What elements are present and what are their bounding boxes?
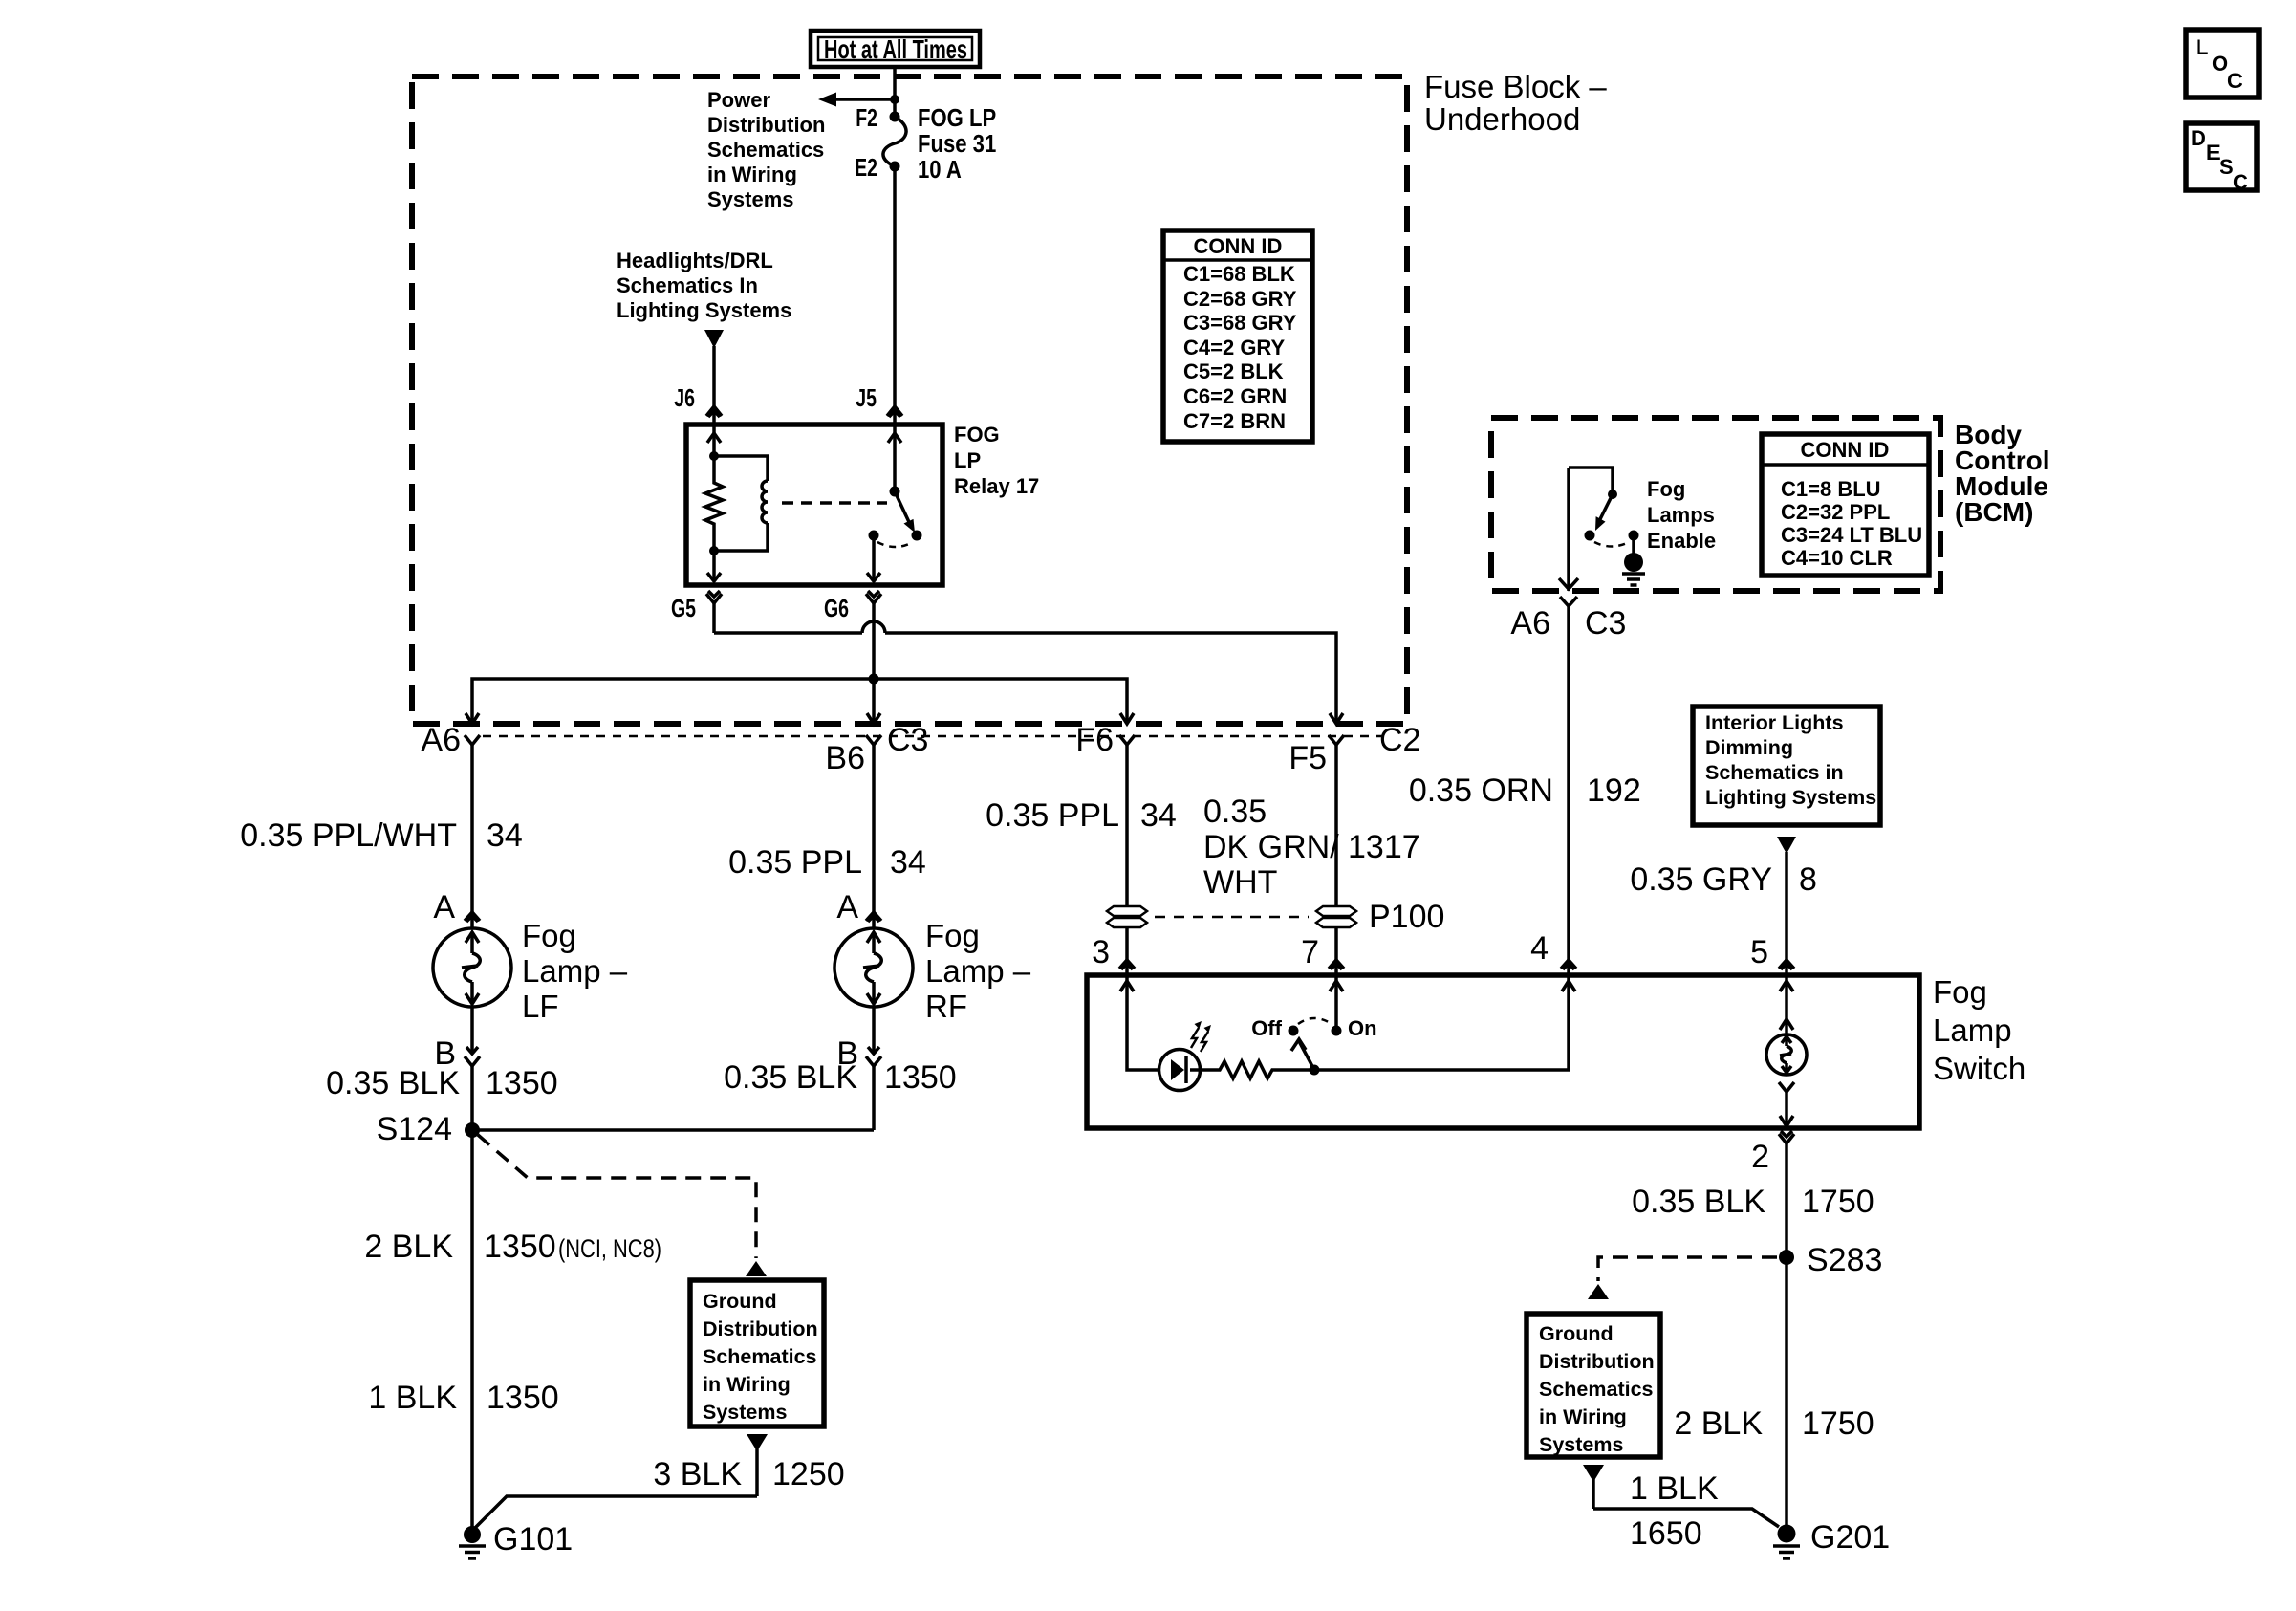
splice S283 node bbox=[1779, 1250, 1794, 1265]
svg-text:3: 3 bbox=[1092, 934, 1110, 970]
splice S124 node bbox=[465, 1122, 480, 1138]
svg-text:1650: 1650 bbox=[1630, 1515, 1702, 1552]
svg-text:in Wiring: in Wiring bbox=[707, 163, 797, 186]
svg-text:P100: P100 bbox=[1369, 899, 1444, 935]
Interior Lights Dimming reference box bbox=[1693, 707, 1880, 825]
svg-text:DK GRN/: DK GRN/ bbox=[1203, 829, 1339, 865]
svg-text:C5=2 BLK: C5=2 BLK bbox=[1183, 359, 1284, 383]
svg-text:C4=10 CLR: C4=10 CLR bbox=[1781, 546, 1893, 570]
CONN ID table (BCM) bbox=[1762, 434, 1929, 576]
switch lamp output wire bbox=[1779, 1082, 1794, 1126]
svg-text:C4=2 GRY: C4=2 GRY bbox=[1183, 336, 1286, 359]
Hot at All Times power tag bbox=[811, 31, 980, 67]
svg-text:Systems: Systems bbox=[707, 187, 794, 211]
relay coil bbox=[714, 456, 768, 551]
svg-text:Fog: Fog bbox=[1647, 477, 1685, 501]
dashed branch from S124 to ground distribution bbox=[478, 1135, 767, 1276]
relay common contact node bbox=[869, 531, 879, 541]
connector G5 bbox=[706, 591, 722, 633]
svg-text:Fog: Fog bbox=[925, 918, 980, 953]
wire G6 distribution run (to A6, B6, F6) bbox=[466, 679, 1134, 724]
svg-text:E2: E2 bbox=[855, 153, 877, 181]
connector F5/C2 (fuse block) bbox=[1329, 735, 1344, 906]
svg-text:Ground: Ground bbox=[1539, 1322, 1614, 1345]
connector A (fog lamp RF) bbox=[866, 912, 881, 929]
BCM output wire bbox=[1559, 468, 1578, 591]
svg-text:FOG LP: FOG LP bbox=[918, 104, 996, 132]
relay switch pivot node bbox=[890, 487, 900, 497]
connector B (fog lamp LF) bbox=[465, 1007, 480, 1130]
svg-text:L: L bbox=[2196, 35, 2208, 59]
svg-text:WHT: WHT bbox=[1203, 864, 1277, 901]
node F2 bbox=[890, 112, 900, 122]
fog lamp LF bbox=[433, 928, 511, 1007]
svg-text:4: 4 bbox=[1530, 930, 1549, 967]
wire from Hot at All Times into fuse block bbox=[893, 67, 897, 117]
svg-text:A: A bbox=[433, 889, 455, 925]
node junction at power branch bbox=[890, 95, 899, 104]
svg-text:Fuse Block –: Fuse Block – bbox=[1424, 69, 1607, 104]
wire branch to Power Distribution (arrow left) bbox=[818, 93, 895, 107]
inline connector P100 right half bbox=[1316, 906, 1356, 927]
svg-text:5: 5 bbox=[1750, 934, 1768, 970]
svg-text:C2=32 PPL: C2=32 PPL bbox=[1781, 500, 1890, 524]
svg-text:(NCI, NC8): (NCI, NC8) bbox=[558, 1234, 661, 1263]
svg-text:G201: G201 bbox=[1810, 1519, 1890, 1556]
switch common node bbox=[1310, 1065, 1320, 1076]
svg-text:G6: G6 bbox=[824, 594, 849, 621]
relay coil top node bbox=[709, 451, 719, 461]
fog lamp RF name bbox=[925, 918, 1031, 1024]
connector A6 (fuse block) bbox=[465, 735, 480, 912]
svg-text:LP: LP bbox=[954, 448, 981, 472]
svg-text:Underhood: Underhood bbox=[1424, 101, 1580, 137]
switch pin 4 internal wire bbox=[1314, 977, 1575, 1070]
svg-text:Schematics in: Schematics in bbox=[1705, 761, 1844, 784]
wire label 0.35 PPL 34 (RF) bbox=[728, 844, 926, 881]
svg-text:Lighting Systems: Lighting Systems bbox=[1705, 786, 1876, 809]
connector G6 bbox=[866, 591, 881, 679]
connector J6 bbox=[706, 406, 722, 456]
svg-text:0.35: 0.35 bbox=[1203, 794, 1267, 830]
connector B6/C3 (fuse block) bbox=[866, 735, 881, 912]
wire label 0.35 ORN 192 bbox=[1409, 773, 1641, 809]
Fog Lamps Enable label bbox=[1647, 477, 1716, 553]
svg-text:S: S bbox=[2220, 155, 2234, 179]
connector pin 4 (switch) bbox=[1561, 960, 1576, 975]
svg-text:C6=2 GRN: C6=2 GRN bbox=[1183, 384, 1287, 408]
P100 label bbox=[1369, 899, 1444, 935]
wire S124 to G101 bbox=[470, 1130, 474, 1531]
relay contact travel arc (dashed) bbox=[877, 542, 913, 547]
svg-text:10 A: 10 A bbox=[918, 156, 962, 184]
svg-text:Schematics: Schematics bbox=[703, 1345, 817, 1368]
connector pin 3 (switch) bbox=[1119, 960, 1135, 975]
svg-text:FOG: FOG bbox=[954, 423, 1000, 446]
svg-text:C3: C3 bbox=[1585, 605, 1626, 642]
Body Control Module dashed boundary bbox=[1491, 418, 1940, 591]
svg-text:0.35 ORN: 0.35 ORN bbox=[1409, 773, 1553, 809]
switch travel arc (dashed) bbox=[1298, 1018, 1332, 1024]
pin 7 label bbox=[1301, 934, 1319, 970]
svg-text:8: 8 bbox=[1799, 861, 1817, 898]
node splice on G6 run bbox=[869, 674, 879, 685]
svg-text:Schematics: Schematics bbox=[707, 138, 824, 162]
arrow from headlights schematics bbox=[704, 330, 724, 406]
svg-text:1750: 1750 bbox=[1802, 1184, 1874, 1220]
svg-text:F5: F5 bbox=[1289, 740, 1327, 776]
wire label 1650 bbox=[1630, 1515, 1702, 1552]
svg-text:Lamp –: Lamp – bbox=[925, 953, 1031, 989]
svg-text:Systems: Systems bbox=[1539, 1433, 1623, 1456]
svg-text:C: C bbox=[2233, 170, 2248, 194]
CONN ID table (fuse block) bbox=[1163, 230, 1312, 442]
svg-text:G5: G5 bbox=[671, 594, 696, 621]
svg-text:C2=68 GRY: C2=68 GRY bbox=[1183, 287, 1297, 311]
label F6 bbox=[1075, 722, 1114, 758]
svg-text:Off: Off bbox=[1251, 1016, 1282, 1040]
pin 4 label bbox=[1530, 930, 1549, 967]
svg-text:2: 2 bbox=[1751, 1139, 1769, 1175]
svg-text:7: 7 bbox=[1301, 934, 1319, 970]
pin A label (RF) bbox=[836, 889, 858, 925]
svg-text:Power: Power bbox=[707, 88, 770, 112]
switch On contact node bbox=[1332, 1026, 1342, 1036]
svg-text:Fuse 31: Fuse 31 bbox=[918, 130, 996, 158]
svg-text:Interior Lights: Interior Lights bbox=[1705, 711, 1844, 734]
relay output wire to G6 bbox=[867, 535, 880, 581]
wire label 2 BLK 1750 bbox=[1674, 1405, 1874, 1442]
pin 5 label bbox=[1750, 934, 1768, 970]
svg-text:0.35 BLK: 0.35 BLK bbox=[1632, 1184, 1765, 1220]
connector pin 7 (switch) bbox=[1329, 960, 1344, 975]
pin A label (LF) bbox=[433, 889, 455, 925]
svg-text:C2: C2 bbox=[1379, 722, 1420, 758]
svg-text:2 BLK: 2 BLK bbox=[364, 1229, 453, 1265]
svg-text:LF: LF bbox=[522, 989, 559, 1024]
wire label 0.35 DK GRN/WHT 1317 bbox=[1203, 794, 1420, 901]
connector A (fog lamp LF) bbox=[465, 912, 480, 929]
fog lamp LF name bbox=[522, 918, 628, 1024]
label On bbox=[1348, 1016, 1377, 1040]
wire from ground distribution to G201 bbox=[1593, 1509, 1779, 1527]
relay coil wire to G5 bbox=[707, 551, 721, 581]
relay pin J6 direction arrow bbox=[707, 433, 721, 443]
svg-text:C: C bbox=[2227, 69, 2242, 93]
svg-text:C3=24 LT BLU: C3=24 LT BLU bbox=[1781, 523, 1922, 547]
svg-text:Dimming: Dimming bbox=[1705, 736, 1793, 759]
svg-text:Lamps: Lamps bbox=[1647, 503, 1715, 527]
BCM internal ground bbox=[1622, 535, 1645, 585]
connector A6/C3 (BCM) bbox=[1560, 597, 1577, 960]
wire label 0.35 PPL/WHT 34 bbox=[240, 817, 523, 854]
svg-text:F2: F2 bbox=[856, 103, 877, 131]
label C3 bbox=[887, 722, 928, 758]
connector B (fog lamp RF) bbox=[866, 1007, 881, 1130]
ground G101 bbox=[459, 1526, 486, 1558]
connector J5 bbox=[887, 406, 902, 491]
svg-text:1350: 1350 bbox=[884, 1059, 957, 1096]
pin B label (RF) bbox=[836, 1035, 858, 1072]
wire label 0.35 BLK 1350 (LF) bbox=[326, 1065, 558, 1101]
svg-text:0.35 BLK: 0.35 BLK bbox=[724, 1059, 857, 1096]
pin J6 label bbox=[674, 383, 695, 411]
ground distribution reference box (right) bbox=[1527, 1314, 1660, 1457]
fog lamp switch box bbox=[1087, 975, 1919, 1128]
switch arm bbox=[1291, 1039, 1314, 1070]
svg-text:1 BLK: 1 BLK bbox=[1630, 1470, 1719, 1507]
svg-text:0.35 PPL: 0.35 PPL bbox=[728, 844, 862, 881]
LED emission arrows bbox=[1191, 1021, 1211, 1052]
relay mechanical link (dashed) bbox=[782, 501, 887, 505]
svg-text:Lighting Systems: Lighting Systems bbox=[617, 298, 791, 322]
connector pin 5 (switch) bbox=[1779, 960, 1794, 975]
svg-text:Ground: Ground bbox=[703, 1290, 777, 1313]
svg-text:2 BLK: 2 BLK bbox=[1674, 1405, 1763, 1442]
svg-text:Enable: Enable bbox=[1647, 529, 1716, 553]
pin G6 label bbox=[824, 594, 849, 621]
label Off bbox=[1251, 1016, 1282, 1040]
svg-text:Distribution: Distribution bbox=[707, 113, 825, 137]
svg-text:C7=2 BRN: C7=2 BRN bbox=[1183, 409, 1286, 433]
svg-text:0.35 PPL: 0.35 PPL bbox=[986, 797, 1119, 834]
svg-text:C3=68 GRY: C3=68 GRY bbox=[1183, 311, 1297, 335]
ground G201 label bbox=[1810, 1519, 1890, 1556]
svg-text:C1=68 BLK: C1=68 BLK bbox=[1183, 262, 1295, 286]
wire label 0.35 BLK 1350 (RF) bbox=[724, 1059, 957, 1096]
svg-text:Relay 17: Relay 17 bbox=[954, 474, 1039, 498]
svg-text:34: 34 bbox=[487, 817, 523, 854]
wire label 1 BLK bbox=[1630, 1470, 1719, 1507]
pin J5 label bbox=[856, 383, 877, 411]
svg-text:B6: B6 bbox=[825, 740, 865, 776]
wire S283 to G201 bbox=[1785, 1257, 1788, 1534]
svg-text:Headlights/DRL: Headlights/DRL bbox=[617, 249, 773, 272]
switch pin 5 internal wire bbox=[1780, 977, 1793, 1034]
relay switch arm bbox=[895, 491, 915, 533]
svg-text:J6: J6 bbox=[674, 383, 695, 411]
svg-text:O: O bbox=[2212, 52, 2228, 76]
Fuse Block - Underhood label bbox=[1424, 69, 1607, 137]
switch illumination lamp bbox=[1766, 1034, 1807, 1075]
fuse value label FOG LP Fuse 31 10 A bbox=[918, 104, 996, 184]
label C3 (BCM) bbox=[1585, 605, 1626, 642]
svg-text:Switch: Switch bbox=[1933, 1051, 2025, 1086]
svg-text:1 BLK: 1 BLK bbox=[368, 1380, 457, 1416]
svg-text:0.35 BLK: 0.35 BLK bbox=[326, 1065, 460, 1101]
label B6 bbox=[825, 740, 865, 776]
svg-text:3 BLK: 3 BLK bbox=[653, 1456, 742, 1492]
svg-text:1317: 1317 bbox=[1348, 829, 1420, 865]
svg-text:A: A bbox=[836, 889, 858, 925]
ground G101 label bbox=[493, 1521, 573, 1557]
wire P100 to switch pin 7 bbox=[1334, 927, 1338, 960]
Power Distribution reference note bbox=[707, 88, 825, 211]
svg-text:34: 34 bbox=[1140, 797, 1177, 834]
svg-text:A6: A6 bbox=[421, 722, 461, 758]
svg-text:CONN ID: CONN ID bbox=[1194, 234, 1283, 258]
svg-text:On: On bbox=[1348, 1016, 1377, 1040]
switch resistor bbox=[1201, 1061, 1314, 1078]
svg-text:RF: RF bbox=[925, 989, 967, 1024]
svg-text:Schematics In: Schematics In bbox=[617, 273, 758, 297]
relay coil bottom node bbox=[709, 546, 719, 555]
label F5 bbox=[1289, 740, 1327, 776]
ground distribution reference box (left) bbox=[690, 1280, 824, 1426]
svg-text:S283: S283 bbox=[1807, 1242, 1882, 1278]
svg-text:Fog: Fog bbox=[1933, 974, 1987, 1010]
svg-text:Systems: Systems bbox=[703, 1401, 787, 1424]
svg-text:CONN ID: CONN ID bbox=[1801, 438, 1890, 462]
wire label 1 BLK 1350 bbox=[368, 1380, 558, 1416]
svg-text:J5: J5 bbox=[856, 383, 877, 411]
arrow below ground distribution box (right) bbox=[1583, 1465, 1604, 1509]
svg-text:S124: S124 bbox=[377, 1111, 452, 1147]
fuse FOG LP Fuse 31 10A bbox=[883, 117, 906, 166]
svg-text:in Wiring: in Wiring bbox=[703, 1373, 791, 1396]
wire label 0.35 GRY 8 bbox=[1630, 861, 1817, 898]
svg-text:D: D bbox=[2191, 126, 2206, 150]
svg-text:F6: F6 bbox=[1075, 722, 1114, 758]
ground G201 bbox=[1773, 1525, 1800, 1559]
fog lamp RF bbox=[834, 928, 913, 1007]
svg-text:1350: 1350 bbox=[484, 1229, 556, 1265]
wire label 2 BLK 1350 (NCI, NC8) bbox=[364, 1229, 661, 1265]
label A6 (BCM) bbox=[1510, 605, 1550, 642]
svg-text:Distribution: Distribution bbox=[1539, 1350, 1655, 1373]
wire label 3 BLK 1250 bbox=[653, 1456, 844, 1492]
svg-text:C3: C3 bbox=[887, 722, 928, 758]
label C2 bbox=[1379, 722, 1420, 758]
relay pin J5 direction arrow bbox=[888, 433, 901, 443]
inline connector P100 left half bbox=[1107, 906, 1147, 927]
wire P100 to switch pin 3 bbox=[1125, 927, 1129, 960]
P100 dashed pairing line bbox=[1155, 916, 1309, 919]
svg-text:G101: G101 bbox=[493, 1521, 573, 1557]
svg-text:1350: 1350 bbox=[486, 1065, 558, 1101]
svg-text:1350: 1350 bbox=[487, 1380, 559, 1416]
switch Off contact node bbox=[1289, 1026, 1299, 1036]
svg-text:0.35 PPL/WHT: 0.35 PPL/WHT bbox=[240, 817, 457, 854]
BCM fog lamps enable switch bbox=[1569, 468, 1639, 547]
svg-text:34: 34 bbox=[890, 844, 926, 881]
relay label FOG LP Relay 17 bbox=[954, 423, 1039, 498]
switch pin 7 internal wire bbox=[1330, 977, 1343, 1031]
connector F6 (fuse block) bbox=[1119, 735, 1135, 906]
pin 2 label bbox=[1751, 1139, 1769, 1175]
pin E2 label bbox=[855, 153, 877, 181]
svg-text:Lamp: Lamp bbox=[1933, 1012, 2012, 1048]
svg-text:1250: 1250 bbox=[772, 1456, 845, 1492]
relay resistor bbox=[705, 456, 723, 551]
wire fuse E2 to relay pin J5 bbox=[893, 166, 897, 406]
svg-text:in Wiring: in Wiring bbox=[1539, 1405, 1627, 1428]
wire from ground distribution to G101 bbox=[475, 1496, 757, 1528]
connector pin 2 (switch) bbox=[1779, 1131, 1794, 1257]
svg-text:0.35 GRY: 0.35 GRY bbox=[1630, 861, 1772, 898]
arrow below ground distribution box (left) bbox=[747, 1434, 768, 1496]
relay switch arm contact node bbox=[912, 531, 922, 541]
splice S283 label bbox=[1807, 1242, 1882, 1278]
pin B label (LF) bbox=[434, 1035, 456, 1072]
switch pin 3 internal wire bbox=[1120, 977, 1159, 1070]
pin F2 label bbox=[856, 103, 877, 131]
label A6 bbox=[421, 722, 461, 758]
node E2 bbox=[890, 162, 900, 172]
svg-text:A6: A6 bbox=[1510, 605, 1550, 642]
wire label 0.35 BLK 1750 bbox=[1632, 1184, 1874, 1220]
svg-text:Schematics: Schematics bbox=[1539, 1378, 1654, 1401]
svg-text:C1=8 BLU: C1=8 BLU bbox=[1781, 477, 1881, 501]
dashed branch from S283 to ground distribution bbox=[1588, 1257, 1777, 1299]
svg-text:Distribution: Distribution bbox=[703, 1317, 818, 1340]
Body Control Module label bbox=[1955, 420, 2050, 527]
svg-text:1750: 1750 bbox=[1802, 1405, 1874, 1442]
connector row thin dashed line bbox=[483, 735, 1383, 738]
svg-text:Hot at All Times: Hot at All Times bbox=[824, 34, 967, 64]
svg-text:(BCM): (BCM) bbox=[1955, 497, 2033, 527]
svg-text:Lamp –: Lamp – bbox=[522, 953, 628, 989]
svg-text:E: E bbox=[2206, 141, 2220, 164]
Fuse Block - Underhood dashed boundary bbox=[412, 76, 1407, 724]
wire label 0.35 PPL 34 (F6) bbox=[986, 797, 1177, 834]
relay box FOG LP Relay 17 bbox=[686, 425, 942, 585]
DESC reference box bbox=[2186, 123, 2257, 194]
LOC reference box bbox=[2186, 30, 2259, 98]
pin 3 label bbox=[1092, 934, 1110, 970]
wire G5 to F5/C2 (coil control run) bbox=[714, 621, 1343, 724]
splice S124 wire bbox=[472, 1128, 874, 1132]
indicator LED bbox=[1159, 1050, 1202, 1091]
arrow from interior lights box bbox=[1777, 837, 1796, 960]
Headlights/DRL reference note bbox=[617, 249, 791, 322]
svg-text:192: 192 bbox=[1587, 773, 1641, 809]
splice S124 label bbox=[377, 1111, 452, 1147]
svg-text:Fog: Fog bbox=[522, 918, 576, 953]
fog lamp switch label bbox=[1933, 974, 2025, 1086]
pin G5 label bbox=[671, 594, 696, 621]
